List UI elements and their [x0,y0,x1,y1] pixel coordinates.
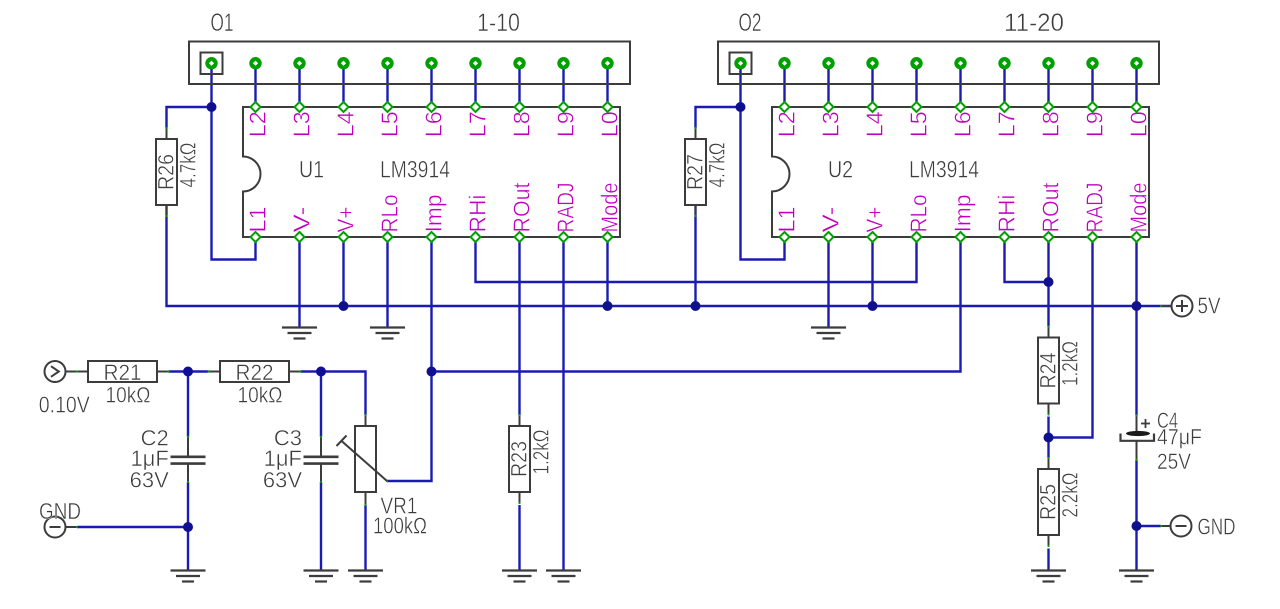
wire node down to C3 [320,372,322,437]
svg-text:Imp: Imp [421,195,447,233]
pin 2 of connector O1 [249,57,261,69]
ground at U1 RLo [370,328,405,339]
pin Imp of U1 [427,232,437,242]
pin Mode of U1 [603,232,613,242]
pin L3 of U1 [295,102,305,112]
input symbol 0.10V [39,361,91,418]
pin L3 of U2 [824,102,834,112]
wire O1 pin to U1 top pin x=387.5 [386,63,388,107]
junction GND net at C4 [1132,521,1142,531]
svg-text:U2: U2 [828,157,853,184]
wire O2 pin to U2 top pin x=1092.5 [1091,63,1093,107]
pin L8 of U2 [1044,102,1054,112]
svg-text:1.2kΩ: 1.2kΩ [1058,341,1083,386]
wire U1 RHi to U2 RLo [476,237,917,282]
junction O2 pin1 / R27 [736,102,746,112]
pin Imp of U2 [956,232,966,242]
svg-text:RADJ: RADJ [553,183,579,233]
wire U1 Imp down to node [430,237,432,372]
op-amp U1 LM3914 body [243,107,620,237]
pin 3 of connector O2 [822,57,834,69]
wire R21 to R22 [169,370,209,372]
pin 4 of connector O1 [337,57,349,69]
potentiometer VR1 100k [337,414,428,539]
svg-text:L3: L3 [818,111,844,137]
junction R21/R22/C2 node [183,367,193,377]
svg-text:L6: L6 [950,111,976,137]
power symbol 5V [1160,293,1221,319]
svg-text:GND: GND [39,498,81,524]
resistor R21 10kΩ [75,360,169,408]
svg-text:RLo: RLo [906,195,932,233]
junction R22/C3/VR1 node [316,367,326,377]
wire U2 RHi to ROut net [1005,237,1049,282]
pin 10 of connector O2 [1130,57,1142,69]
pin 10 of connector O1 [601,57,613,69]
resistor R23 1.2kΩ [507,414,554,504]
svg-text:1.2kΩ: 1.2kΩ [529,430,554,475]
pin L9 of U2 [1088,102,1098,112]
svg-text:R22: R22 [236,360,274,385]
wire O2 pin to U2 top pin x=916.5 [915,63,917,107]
pin L2 of U1 [251,102,261,112]
ground at U1 V- [282,328,317,339]
pin 5 of connector O2 [910,57,922,69]
power symbol GND left [39,498,81,538]
svg-text:L0: L0 [597,111,623,137]
wire O2 pin to U2 top pin x=828.5 [827,63,829,107]
wire VR1 to ground [364,505,366,571]
wire O2 pin to U2 top pin x=1136.5 [1135,63,1137,107]
svg-text:63V: 63V [130,468,169,493]
pin ROut of U2 [1044,232,1054,242]
pin 9 of connector O2 [1086,57,1098,69]
svg-text:L7: L7 [465,111,491,137]
pin RADJ of U1 [559,232,569,242]
pin L0 of U2 [1132,102,1142,112]
wire C3 to ground [320,482,322,571]
wire O1 pin to U1 top pin x=255.5 [254,63,256,107]
pin 1 of connector O1 [205,57,217,69]
resistor R26 4.7kΩ [154,127,201,217]
svg-text:11-20: 11-20 [1004,9,1064,37]
svg-text:ROut: ROut [1038,182,1064,233]
wire O1 pin to U1 top pin x=299.5 [298,63,300,107]
pin L5 of U2 [912,102,922,112]
pin RLo of U2 [912,232,922,242]
wire R27 top to O2 pin1 net [696,107,741,129]
capacitor C3 1μF [263,426,339,493]
svg-text:1-10: 1-10 [477,9,520,37]
pin L7 of U1 [471,102,481,112]
wire U2 V- to ground [827,237,829,328]
wire O1 pin to U1 top pin x=431.5 [430,63,432,107]
pin 8 of connector O1 [513,57,525,69]
pin L6 of U1 [427,102,437,112]
svg-text:RADJ: RADJ [1082,183,1108,233]
junction U1 Imp / VR1 wiper node [427,367,437,377]
svg-text:RLo: RLo [377,195,403,233]
junction U2 RHi/ROut [1044,277,1054,287]
pin 9 of connector O1 [557,57,569,69]
pin 1 of connector O2 [734,57,746,69]
wire 5V bus from R26 to 5V symbol [167,205,1172,306]
wire U2 V+ to 5V bus [871,237,873,306]
wire U2 ROut down to R24 [1047,237,1049,327]
wire node down to VR1 wiper [387,372,432,482]
junction O1 pin1 / R26 [207,102,217,112]
wire R22 to VR1 top [301,372,366,416]
svg-text:U1: U1 [299,157,324,184]
pin 6 of connector O1 [425,57,437,69]
svg-text:L5: L5 [377,111,403,137]
pin 2 of connector O2 [778,57,790,69]
pin RADJ of U2 [1088,232,1098,242]
svg-text:4.7kΩ: 4.7kΩ [176,143,201,188]
wire O2 pin1 to U2 L1 [741,63,785,260]
wire O1 pin1 to U1 L1 [212,63,256,260]
wire C4 to ground [1135,460,1137,571]
junction U2 Mode / C4 on 5V bus [1132,301,1142,311]
wire O1 pin to U1 top pin x=475.5 [474,63,476,107]
pin 5 of connector O1 [381,57,393,69]
svg-text:L8: L8 [509,111,535,137]
wire signal node to U2 Imp [432,237,961,372]
pin RHi of U2 [1000,232,1010,242]
pin 4 of connector O2 [866,57,878,69]
wire O2 pin to U2 top pin x=1048.5 [1047,63,1049,107]
svg-text:RHi: RHi [994,195,1020,233]
svg-text:L2: L2 [245,111,271,137]
ground at VR1 [348,571,383,582]
capacitor C4 47uF polarized [1121,408,1203,474]
ground at U2 V- [811,328,846,339]
svg-text:L1: L1 [774,207,800,233]
svg-text:47μF: 47μF [1157,425,1202,450]
pin L9 of U1 [559,102,569,112]
op-amp U2 LM3914 body [772,107,1149,237]
svg-text:10kΩ: 10kΩ [106,383,151,408]
svg-text:2.2kΩ: 2.2kΩ [1058,473,1083,518]
svg-text:L3: L3 [289,111,315,137]
svg-text:100kΩ: 100kΩ [373,513,427,539]
wire O2 pin to U2 top pin x=1004.5 [1003,63,1005,107]
junction R27 on 5V bus [691,301,701,311]
pin L2 of U2 [780,102,790,112]
resistor R27 4.7kΩ [683,127,730,217]
wire R25 to ground [1047,549,1049,571]
wire O1 pin to U1 top pin x=343.5 [342,63,344,107]
svg-text:L4: L4 [333,111,359,137]
wire U1 V- to ground [298,237,300,328]
pin L4 of U2 [868,102,878,112]
connector O1 [189,9,630,84]
pin V- of U1 [295,232,305,242]
resistor R25 2.2kΩ [1036,457,1083,547]
wire R26 top to O1 pin1 net [167,107,212,129]
svg-text:Mode: Mode [1126,183,1152,233]
wire O1 pin to U1 top pin x=519.5 [518,63,520,107]
wire U1 RADJ to ground [562,237,564,571]
svg-text:GND: GND [1198,514,1236,540]
resistor R24 1.2kΩ [1036,325,1083,415]
wire O2 pin to U2 top pin x=784.5 [783,63,785,107]
pin ROut of U1 [515,232,525,242]
svg-text:O2: O2 [739,9,762,37]
pin 6 of connector O2 [954,57,966,69]
connector O2 [718,9,1159,84]
capacitor C2 1μF [130,426,206,493]
pin L7 of U2 [1000,102,1010,112]
wire U1 Mode to 5V bus [606,237,608,306]
resistor R22 10kΩ [207,360,301,408]
power symbol GND right [1160,514,1236,540]
wire node down to C2 [187,372,189,437]
junction U1 Mode on 5V bus [603,301,613,311]
svg-text:4.7kΩ: 4.7kΩ [705,143,730,188]
pin L5 of U1 [383,102,393,112]
wire R24 to R25 node [1047,417,1049,459]
svg-text:5V: 5V [1198,293,1222,319]
wire U2 RADJ to R24/R25 node [1049,237,1093,438]
junction GND net at C2 [183,522,193,532]
svg-text:L5: L5 [906,111,932,137]
pin L8 of U1 [515,102,525,112]
wire C2 to ground [187,482,189,571]
svg-text:ROut: ROut [509,182,535,233]
junction R24/R25/RADJ node [1044,433,1054,443]
pin L6 of U2 [956,102,966,112]
wire O1 pin to U1 top pin x=563.5 [562,63,564,107]
svg-text:L7: L7 [994,111,1020,137]
svg-text:25V: 25V [1157,449,1191,474]
svg-text:10kΩ: 10kΩ [238,383,283,408]
svg-text:LM3914: LM3914 [909,157,979,184]
ground at U1 RADJ [546,571,581,582]
ground at C2 [171,571,206,582]
pin RLo of U1 [383,232,393,242]
wire GND symbol to C2 net [77,526,188,528]
svg-text:Mode: Mode [597,183,623,233]
svg-text:L0: L0 [1126,111,1152,137]
svg-text:L4: L4 [862,111,888,137]
junction U2 V+ on 5V bus [868,301,878,311]
svg-text:LM3914: LM3914 [380,157,450,184]
svg-text:L9: L9 [553,111,579,137]
svg-text:R21: R21 [104,360,142,385]
svg-text:L2: L2 [774,111,800,137]
svg-text:L6: L6 [421,111,447,137]
wire O2 pin to U2 top pin x=872.5 [871,63,873,107]
wire R27 bottom to 5V bus [694,205,696,306]
pin 3 of connector O1 [293,57,305,69]
pin 7 of connector O2 [998,57,1010,69]
pin L0 of U1 [603,102,613,112]
pin V+ of U1 [339,232,349,242]
junction U1 V+ on 5V bus [339,301,349,311]
wire U2 Mode down to C4 [1135,237,1137,415]
wire O2 pin to U2 top pin x=960.5 [959,63,961,107]
ground at C3 [304,571,339,582]
wire O1 pin to U1 top pin x=607.5 [606,63,608,107]
svg-text:V+: V+ [862,207,888,233]
svg-text:V-: V- [818,207,844,233]
svg-text:Imp: Imp [950,195,976,233]
pin L1 of U2 [780,232,790,242]
pin V+ of U2 [868,232,878,242]
wire to GND symbol right [1137,525,1162,527]
svg-text:0.10V: 0.10V [39,392,91,418]
pin 7 of connector O1 [469,57,481,69]
pin RHi of U1 [471,232,481,242]
svg-text:63V: 63V [263,468,302,493]
svg-text:V+: V+ [333,207,359,233]
pin Mode of U2 [1132,232,1142,242]
svg-text:L8: L8 [1038,111,1064,137]
svg-text:L1: L1 [245,207,271,233]
wire U1 V+ to 5V bus [342,237,344,306]
ground at R25 [1031,571,1066,582]
pin V- of U2 [824,232,834,242]
wire U1 RLo to ground [386,237,388,328]
pin L4 of U1 [339,102,349,112]
ground at R23 [502,571,537,582]
pin L1 of U1 [251,232,261,242]
wire U1 ROut down to R23 [518,237,520,415]
svg-text:O1: O1 [211,9,234,37]
svg-text:RHi: RHi [465,195,491,233]
wire R23 to ground [518,505,520,571]
pin 8 of connector O2 [1042,57,1054,69]
svg-text:V-: V- [289,207,315,233]
svg-text:L9: L9 [1082,111,1108,137]
ground at C4 [1119,571,1154,582]
